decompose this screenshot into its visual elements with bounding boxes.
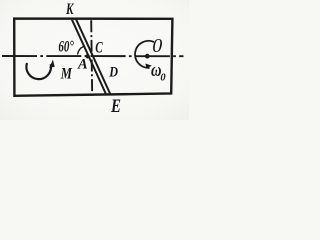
svg-text:0: 0 <box>152 35 162 57</box>
rectangular plate outline <box>14 19 172 96</box>
omega0 arrowhead <box>145 64 152 69</box>
angle arc at A <box>78 46 84 54</box>
rod KE line 2 (right) <box>75 18 110 95</box>
svg-text:0: 0 <box>160 73 166 84</box>
omega0 rotation arc about O <box>135 41 154 68</box>
node O dot <box>145 54 150 59</box>
svg-text:M: M <box>60 65 73 82</box>
rod KE line 1 (left) <box>71 18 106 95</box>
svg-text:K: K <box>65 1 74 18</box>
svg-text:C: C <box>95 40 103 57</box>
node A dot <box>85 54 89 58</box>
moment M arc arrow <box>26 63 51 79</box>
vertical dash-dot line through C <box>91 20 92 97</box>
svg-text:A: A <box>77 56 88 72</box>
moment M arrowhead <box>49 60 55 68</box>
svg-text:E: E <box>110 96 121 117</box>
svg-text:D: D <box>108 65 118 81</box>
svg-text:60°: 60° <box>58 39 74 56</box>
horizontal dash-dot center line <box>2 55 184 57</box>
